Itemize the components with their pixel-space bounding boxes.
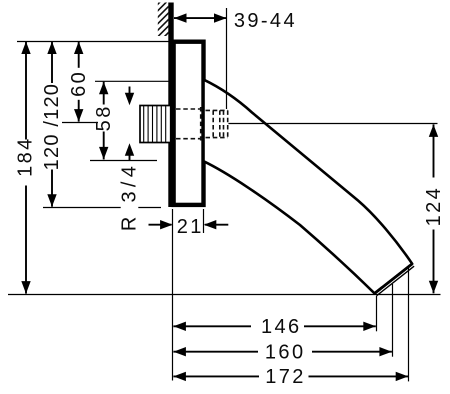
svg-text:21: 21 — [177, 216, 204, 238]
svg-text:R 3/4: R 3/4 — [119, 162, 141, 231]
svg-text:146: 146 — [261, 316, 302, 338]
svg-text:58: 58 — [93, 104, 115, 131]
svg-text:60: 60 — [68, 70, 90, 97]
svg-text:124: 124 — [423, 186, 445, 227]
svg-text:172: 172 — [265, 366, 306, 388]
svg-text:160: 160 — [265, 341, 306, 363]
svg-text:184: 184 — [15, 136, 37, 177]
svg-text:39-44: 39-44 — [234, 10, 297, 32]
svg-text:120 /120: 120 /120 — [41, 83, 63, 170]
